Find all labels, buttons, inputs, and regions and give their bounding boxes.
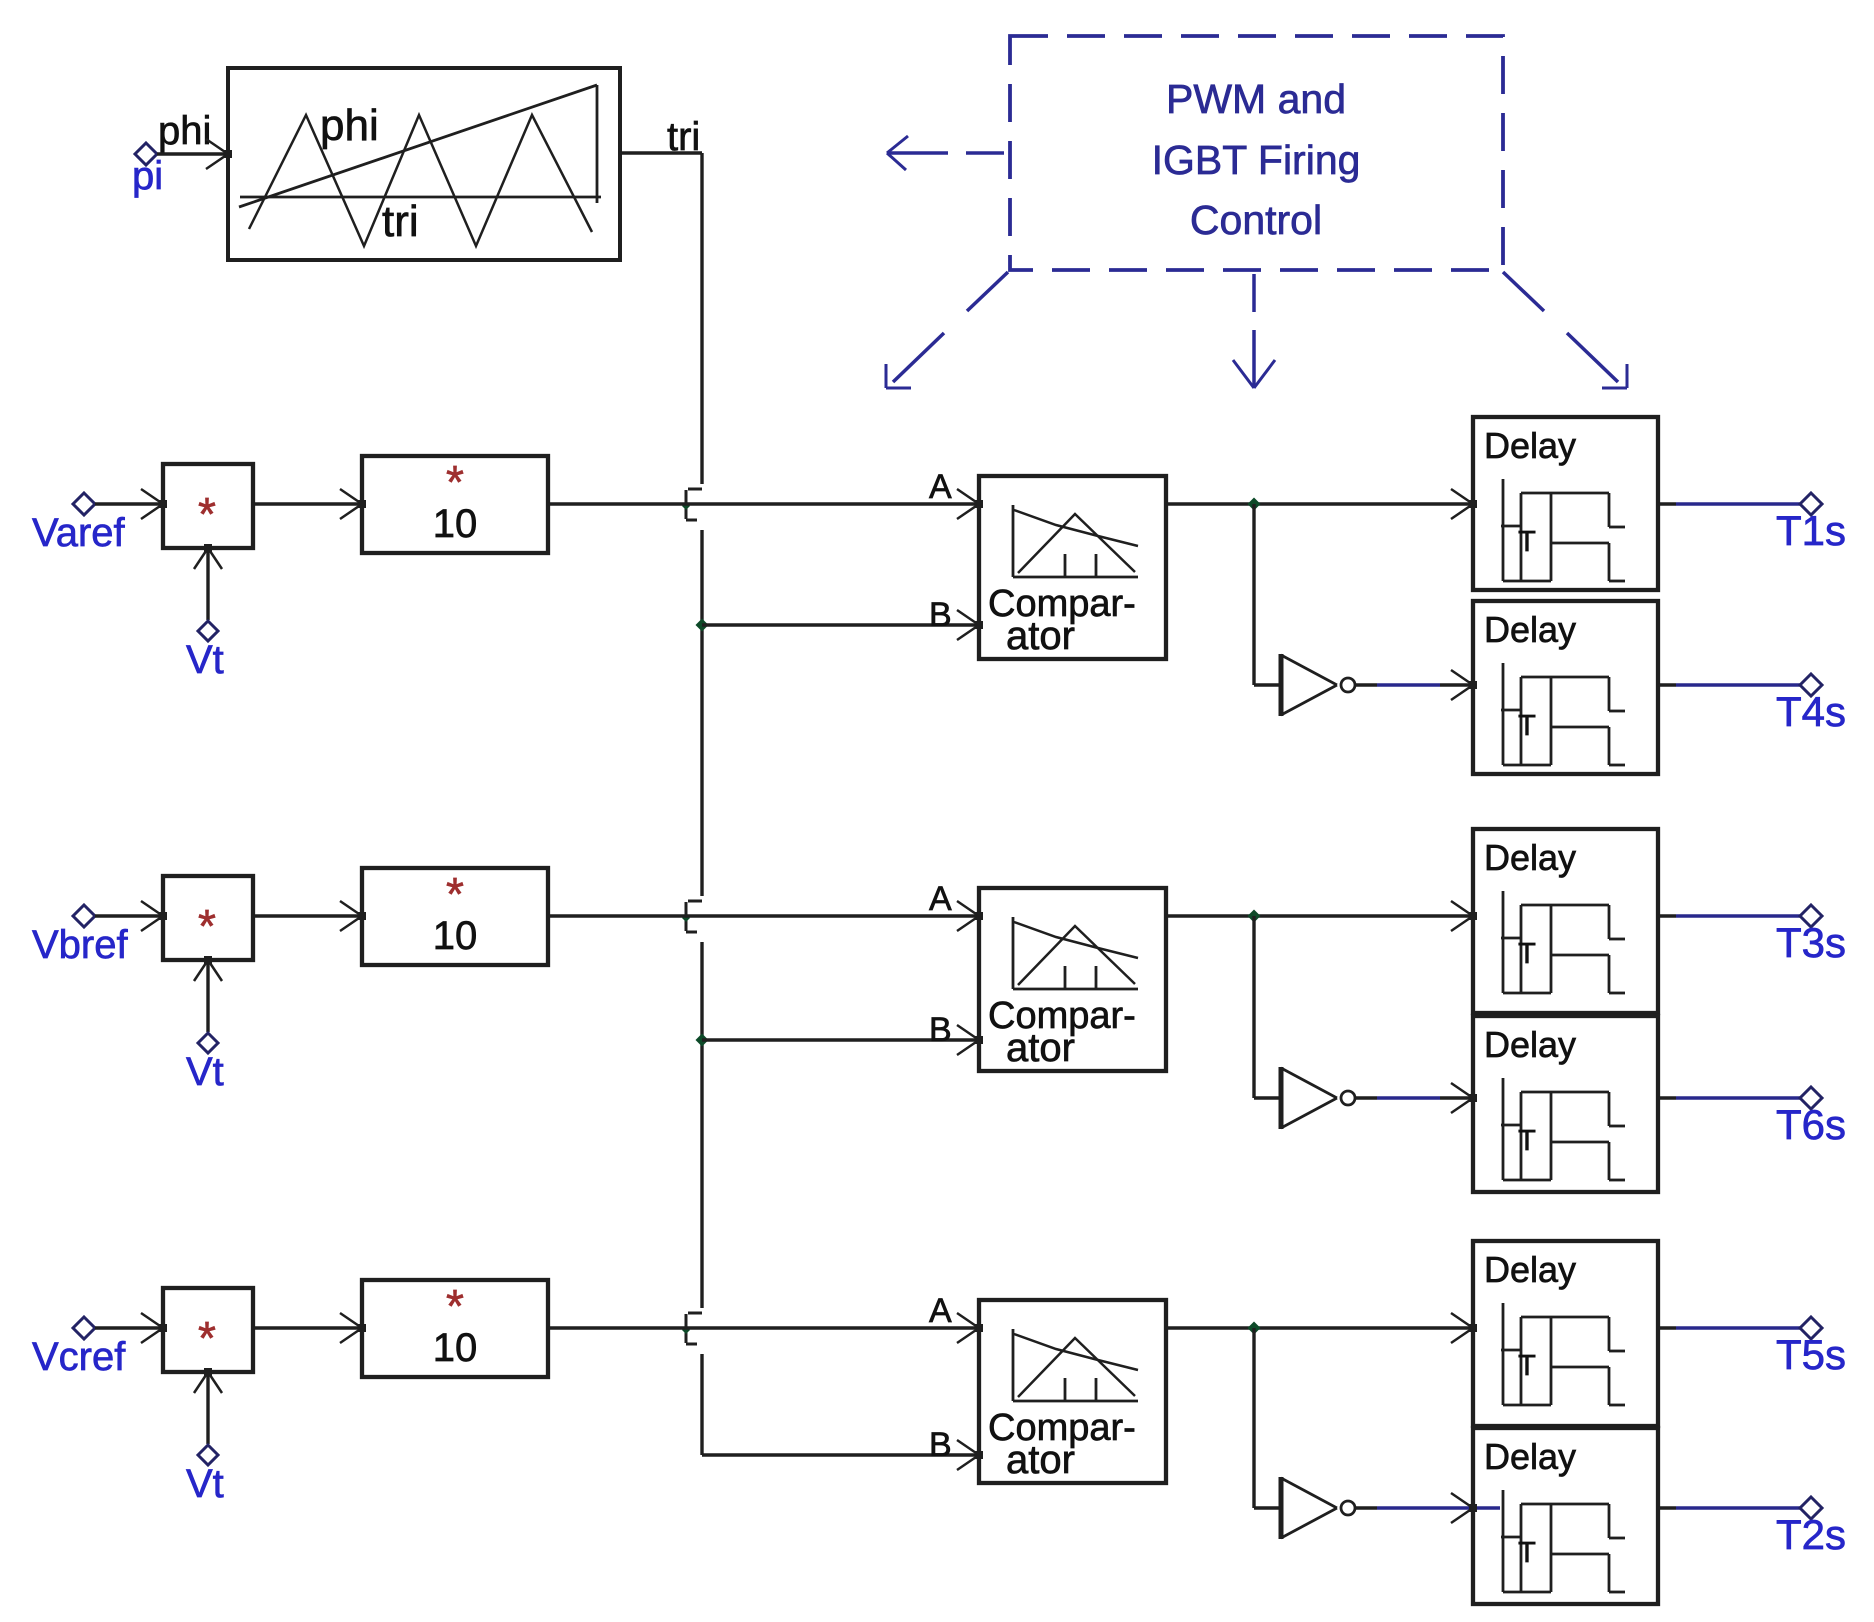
svg-text:T: T <box>1518 710 1536 742</box>
wire comparator output <box>1166 502 1471 505</box>
inverter NOT gate <box>1279 654 1284 716</box>
wire multiplier to gain <box>253 1326 360 1329</box>
delay block upper T5s <box>1473 1241 1658 1426</box>
svg-text:10: 10 <box>433 1326 478 1370</box>
svg-text:Delay: Delay <box>1484 1024 1576 1065</box>
svg-text:10: 10 <box>433 914 478 958</box>
wire tri bus to comparator B <box>702 1038 977 1041</box>
inverter bubble <box>1341 678 1355 692</box>
wire tri vertical bus segment 1 <box>700 153 703 484</box>
svg-text:Vcref: Vcref <box>32 1335 126 1379</box>
wire delay to T5s <box>1658 1326 1676 1329</box>
delay block upper T3s <box>1473 829 1658 1013</box>
delay icon waveform <box>1502 479 1505 581</box>
multiplier block row Varef <box>163 464 253 548</box>
svg-text:Vbref: Vbref <box>32 923 128 967</box>
junction on tri bus <box>696 1034 709 1047</box>
inverter NOT gate <box>1279 1477 1284 1539</box>
svg-text:Vt: Vt <box>186 1462 224 1506</box>
node Vt connector diamond <box>198 621 218 641</box>
wire gain to comparator A <box>548 914 977 917</box>
svg-text:T6s: T6s <box>1776 1101 1846 1148</box>
svg-text:T: T <box>1518 1537 1536 1569</box>
comparator icon decaying signal <box>1014 922 1138 958</box>
node Vbref connector diamond <box>73 905 95 927</box>
gain block *10 <box>362 1280 548 1377</box>
comparator icon triangle <box>1018 1338 1135 1397</box>
node T1s connector diamond <box>1800 493 1822 515</box>
comparator icon axes <box>1012 505 1015 577</box>
wire junction down to inverter <box>1252 504 1255 685</box>
svg-text:Varef: Varef <box>32 511 126 555</box>
wire junction down to inverter <box>1252 916 1255 1098</box>
junction comparator output <box>1248 498 1261 511</box>
node Vt connector diamond <box>198 1033 218 1053</box>
svg-text:phi: phi <box>158 109 211 153</box>
comparator icon axes <box>1012 917 1015 989</box>
delay icon waveform <box>1502 891 1505 993</box>
comparator icon triangle <box>1018 514 1135 573</box>
gain block *10 <box>362 456 548 553</box>
svg-text:*: * <box>446 456 464 508</box>
svg-text:A: A <box>929 1292 952 1330</box>
svg-text:10: 10 <box>433 502 478 546</box>
delay block lower T4s <box>1473 601 1658 774</box>
wire multiplier to gain <box>253 502 360 505</box>
wire gain to comparator A <box>548 502 977 505</box>
wire tri vertical bus segment 2 <box>700 530 703 896</box>
delay icon waveform <box>1502 1303 1505 1405</box>
wire Vbref to multiplier <box>95 914 161 917</box>
svg-text:Delay: Delay <box>1484 1436 1576 1477</box>
node T2s connector diamond <box>1800 1497 1822 1519</box>
svg-text:ator: ator <box>1006 1438 1075 1482</box>
svg-text:*: * <box>198 900 216 952</box>
comparator block <box>979 476 1166 659</box>
wire inverter to lower delay <box>1355 683 1377 686</box>
wire inverter to lower delay <box>1355 1096 1377 1099</box>
wire Vt to multiplier <box>206 1374 209 1444</box>
delay block lower T6s <box>1473 1016 1658 1192</box>
multiplier block row Vbref <box>163 876 253 960</box>
wire inverter to lower delay <box>1355 1506 1377 1509</box>
comparator icon decaying signal <box>1014 510 1138 546</box>
comparator icon sample ticks <box>1064 554 1067 576</box>
inverter NOT gate <box>1279 1067 1284 1129</box>
block U1 triangle/ramp generator <box>228 68 620 260</box>
svg-text:phi: phi <box>320 101 379 150</box>
svg-text:Delay: Delay <box>1484 609 1576 650</box>
inverter bubble <box>1341 1501 1355 1515</box>
svg-text:tri: tri <box>382 197 419 246</box>
node T3s connector diamond <box>1800 905 1822 927</box>
wire U1 output tri <box>620 151 702 154</box>
svg-text:T: T <box>1518 938 1536 970</box>
svg-text:A: A <box>929 880 952 918</box>
svg-text:B: B <box>929 596 952 634</box>
wire tri vertical bus segment 3 <box>700 942 703 1308</box>
node T6s connector diamond <box>1800 1087 1822 1109</box>
node T5s connector diamond <box>1800 1317 1822 1339</box>
comparator icon decaying signal <box>1014 1334 1138 1370</box>
comparator block <box>979 1300 1166 1483</box>
svg-text:Control: Control <box>1190 197 1322 243</box>
node T4s connector diamond <box>1800 674 1822 696</box>
svg-text:Delay: Delay <box>1484 837 1576 878</box>
crossover hop at y=916 <box>688 900 702 903</box>
delay block upper T1s <box>1473 417 1658 590</box>
comparator icon sample ticks <box>1064 1378 1067 1400</box>
wire delay to T1s <box>1658 502 1676 505</box>
svg-text:Vt: Vt <box>186 638 224 682</box>
svg-text:*: * <box>446 868 464 920</box>
node pi connector diamond <box>135 143 157 165</box>
wire gain to comparator A <box>548 1326 977 1329</box>
comparator block <box>979 888 1166 1071</box>
svg-text:T4s: T4s <box>1776 688 1846 735</box>
wire delay to T4s <box>1658 683 1676 686</box>
gain block *10 <box>362 868 548 965</box>
wire Vt to multiplier <box>206 550 209 620</box>
wire tri bus to comparator B <box>702 1453 977 1456</box>
svg-text:Vt: Vt <box>186 1050 224 1094</box>
annotation arrow down <box>1252 274 1256 312</box>
wire Varef to multiplier <box>95 502 161 505</box>
svg-text:T3s: T3s <box>1776 919 1846 966</box>
wire comparator output <box>1166 1326 1471 1329</box>
svg-text:T1s: T1s <box>1776 507 1846 554</box>
wire Vt to multiplier <box>206 962 209 1032</box>
junction comparator output <box>1248 1322 1261 1335</box>
wire multiplier to gain <box>253 914 360 917</box>
svg-text:B: B <box>929 1011 952 1049</box>
crossover hop at y=504 <box>688 488 702 491</box>
delay icon waveform <box>1502 1490 1505 1592</box>
svg-text:T5s: T5s <box>1776 1331 1846 1378</box>
wire Vcref to multiplier <box>95 1326 161 1329</box>
U1 icon triangle wave tri <box>249 115 592 246</box>
wire delay to T6s <box>1658 1096 1676 1099</box>
svg-text:A: A <box>929 468 952 506</box>
crossover hop at y=1328 <box>688 1312 702 1315</box>
svg-text:*: * <box>198 488 216 540</box>
annotation arrow down-left <box>967 272 1008 311</box>
node Varef connector diamond <box>73 493 95 515</box>
svg-text:PWM and: PWM and <box>1166 76 1346 122</box>
annotation dashed box PWM and IGBT Firing Control <box>1010 36 1503 270</box>
junction on tri bus <box>696 619 709 632</box>
wire comparator output <box>1166 914 1471 917</box>
svg-text:*: * <box>446 1280 464 1332</box>
wire junction down to inverter <box>1252 1328 1255 1508</box>
inverter bubble <box>1341 1091 1355 1105</box>
annotation arrow left <box>966 151 1004 155</box>
svg-text:T: T <box>1518 1350 1536 1382</box>
delay block lower T2s <box>1473 1428 1658 1604</box>
delay icon waveform <box>1502 663 1505 765</box>
wire delay to T2s <box>1658 1506 1676 1509</box>
comparator icon triangle <box>1018 926 1135 985</box>
wire pi to U1 input <box>157 152 226 155</box>
svg-text:pi: pi <box>132 154 163 198</box>
junction comparator output <box>1248 910 1261 923</box>
node Vt connector diamond <box>198 1445 218 1465</box>
svg-text:IGBT Firing: IGBT Firing <box>1152 137 1361 183</box>
svg-text:*: * <box>198 1312 216 1364</box>
arrow into U1 <box>206 139 228 154</box>
U1 icon axis <box>240 196 601 199</box>
svg-text:T: T <box>1518 1125 1536 1157</box>
wire tri bus to comparator B <box>702 623 977 626</box>
wire tri vertical bus segment 4 <box>700 1354 703 1455</box>
annotation arrow down-right <box>1503 272 1544 311</box>
node Vcref connector diamond <box>73 1317 95 1339</box>
wire delay to T3s <box>1658 914 1676 917</box>
svg-text:B: B <box>929 1426 952 1464</box>
svg-text:T: T <box>1518 526 1536 558</box>
svg-text:T2s: T2s <box>1776 1511 1846 1558</box>
svg-text:Delay: Delay <box>1484 425 1576 466</box>
svg-text:ator: ator <box>1006 1026 1075 1070</box>
comparator icon axes <box>1012 1329 1015 1401</box>
U1 icon ramp phi with end drop <box>239 85 597 207</box>
comparator icon sample ticks <box>1064 966 1067 988</box>
svg-text:Delay: Delay <box>1484 1249 1576 1290</box>
svg-text:ator: ator <box>1006 614 1075 658</box>
multiplier block row Vcref <box>163 1288 253 1372</box>
delay icon waveform <box>1502 1078 1505 1180</box>
